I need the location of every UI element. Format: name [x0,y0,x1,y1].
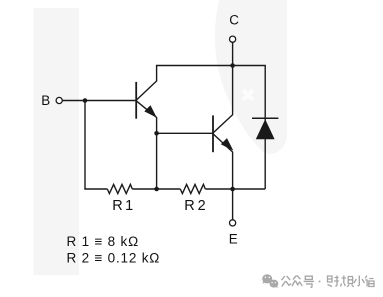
terminal B [56,97,62,103]
众 [292,276,302,287]
watermark wechat icon [262,274,278,288]
wire top rail [156,65,266,67]
wire Q1 emitter drop [136,101,156,189]
terminal C [230,36,236,42]
svg-text:R 2 ≡ 0.12 kΩ: R 2 ≡ 0.12 kΩ [67,250,161,265]
resistor R1 [107,184,132,193]
wire B junction drop [84,101,86,190]
馆 [365,276,374,287]
transistor Q1 [136,82,156,119]
小 [354,276,364,286]
transistor Q2 [213,115,233,152]
wire C terminal lead [232,42,234,65]
mid dot [319,281,321,283]
svg-text:R1: R1 [112,198,135,214]
wire bottom rail middle segment [132,188,180,190]
watermark left band [34,8,80,275]
射 [328,276,339,287]
svg-text:B: B [41,93,50,108]
svg-text:E: E [229,231,238,246]
wire right vertical (diode branch) [264,66,266,190]
node B junction [83,98,88,103]
频 [341,276,354,288]
node A (Q1 emitter / Q2 base) [154,131,159,136]
node E junction [230,187,235,192]
wire Q2 collector riser [213,66,233,134]
wire Q1 collector riser [136,66,156,101]
wire Q2 base from node A [157,132,213,134]
号 [304,276,314,287]
watermark text: 公众号 · 射频小馆 [282,276,375,288]
svg-text:R 1 ≡ 8 kΩ: R 1 ≡ 8 kΩ [67,234,140,249]
wire bottom rail left segment [84,188,107,190]
公 [282,276,292,287]
wire bottom rail right segment [205,188,265,190]
resistor R2 [180,184,205,193]
terminal E [230,220,236,226]
diode D1 [252,118,278,139]
wire Q2 emitter drop [213,134,233,189]
wire E terminal lead [232,189,234,220]
node C junction [230,63,235,68]
node R1-R2 junction [154,187,159,192]
wire B terminal to Q1 base [62,100,136,102]
svg-text:C: C [229,12,239,27]
svg-text:R2: R2 [184,198,208,214]
watermark upper-right blob [215,0,287,154]
